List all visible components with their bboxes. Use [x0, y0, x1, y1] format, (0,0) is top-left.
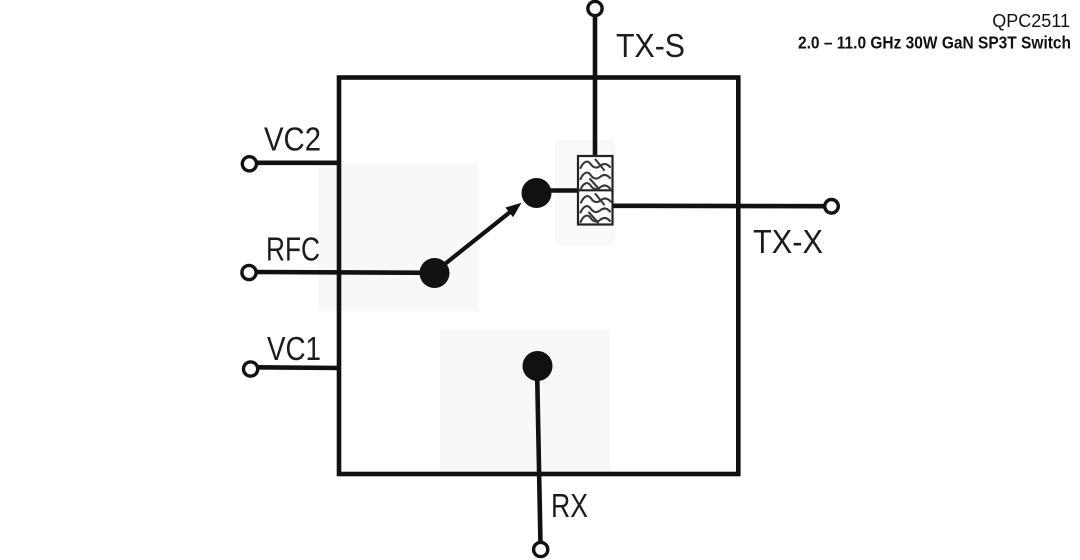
svg-text:VC1: VC1 — [267, 330, 321, 367]
svg-text:2.0 – 11.0 GHz 30W GaN SP3T Sw: 2.0 – 11.0 GHz 30W GaN SP3T Switch — [798, 33, 1071, 53]
svg-text:VC2: VC2 — [264, 121, 321, 158]
svg-text:QPC2511: QPC2511 — [992, 11, 1070, 31]
svg-text:TX-S: TX-S — [616, 27, 685, 64]
svg-text:TX-X: TX-X — [753, 223, 823, 260]
svg-text:RFC: RFC — [266, 231, 320, 268]
svg-text:RX: RX — [551, 487, 588, 524]
